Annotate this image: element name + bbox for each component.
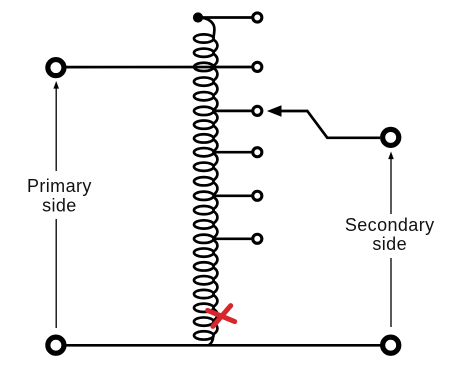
terminal: primary top-left xyxy=(48,60,64,76)
wire: primary top rail to tap 1 xyxy=(56,66,253,69)
wire: bottom rail xyxy=(56,344,391,347)
terminal: primary bottom-left xyxy=(48,337,64,353)
wire: tap lead at y=152.2 xyxy=(213,151,253,154)
tap terminal (small circle) at y=110.9 xyxy=(253,106,262,115)
annotation arrowhead: primary xyxy=(53,81,59,89)
junction dot at coil top xyxy=(193,12,203,22)
coil winding xyxy=(194,18,217,346)
terminal: secondary bottom-right xyxy=(383,337,399,353)
svg-text:side: side xyxy=(372,234,407,254)
tap terminal (small circle) at y=238.8 xyxy=(253,234,262,243)
svg-text:side: side xyxy=(42,195,77,215)
wire: tap lead at y=110.9 xyxy=(213,110,253,113)
wire: tap lead at y=238.8 xyxy=(213,237,253,240)
arrowhead: selector wiper pointing at tap 3 xyxy=(267,105,282,117)
svg-text:Primary: Primary xyxy=(27,176,92,196)
svg-text:Secondary: Secondary xyxy=(345,215,435,235)
annotation line: secondary side (shaft lower) xyxy=(390,258,392,327)
annotation arrowhead: secondary xyxy=(388,152,394,160)
annotation arrow: secondary side (shaft upper) xyxy=(390,158,392,214)
annotation line: primary side (shaft lower) xyxy=(55,219,57,328)
tap terminal (small circle) at y=152.2 xyxy=(253,148,262,157)
tap terminal (small circle) at y=195.8 xyxy=(253,191,262,200)
wire: top lead from coil junction to top terminal xyxy=(198,16,253,19)
wire: selector arm from arrowhead to secondary terminal xyxy=(281,111,381,138)
fault mark: red X on winding xyxy=(208,306,235,327)
terminal: secondary tap output xyxy=(383,129,399,145)
tap terminal (small circle) at y=17.5 xyxy=(253,13,262,22)
tap terminal (small circle) at y=66.9 xyxy=(253,62,262,71)
annotation arrow: primary side (shaft upper) xyxy=(55,88,57,172)
wire: tap lead at y=195.8 xyxy=(213,194,253,197)
